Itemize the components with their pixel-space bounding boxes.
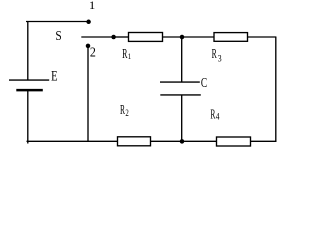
resistor R2 xyxy=(118,137,151,146)
wire R3 to right rail xyxy=(248,36,277,38)
node switch pole junction xyxy=(111,35,116,40)
wire left rail upper xyxy=(27,22,29,80)
wire from switch pole to R1 xyxy=(114,36,129,38)
svg-text:1: 1 xyxy=(89,0,96,12)
wire node A down to capacitor xyxy=(181,37,183,82)
wire right rail vertical xyxy=(275,37,277,142)
svg-text:R: R xyxy=(212,46,217,61)
resistor R4 xyxy=(217,137,251,146)
wire node B to R4 xyxy=(182,140,217,142)
svg-text:C: C xyxy=(201,76,207,91)
svg-text:2: 2 xyxy=(125,109,129,119)
wire R4 to right rail xyxy=(251,140,277,142)
wire node A to R3 xyxy=(182,36,214,38)
wire bottom rail left to R2 xyxy=(27,140,118,142)
svg-text:3: 3 xyxy=(218,54,222,64)
node A junction top xyxy=(180,35,185,40)
svg-text:1: 1 xyxy=(128,51,131,61)
wire R1 to node A xyxy=(163,36,183,38)
svg-text:2: 2 xyxy=(90,45,96,60)
switch S arm xyxy=(81,36,113,38)
wire capacitor down to bottom node xyxy=(181,95,183,141)
resistor R1 xyxy=(129,33,163,42)
battery E negative plate xyxy=(16,89,43,92)
wire from contact 2 down to bottom rail xyxy=(87,46,89,141)
svg-text:E: E xyxy=(51,69,58,85)
node switch contact 1 xyxy=(86,20,91,25)
resistor R3 xyxy=(214,33,248,42)
battery E positive plate xyxy=(9,79,49,81)
capacitor C bottom plate xyxy=(160,94,201,96)
capacitor C top plate xyxy=(160,81,200,83)
svg-text:S: S xyxy=(55,28,61,43)
node switch contact 2 xyxy=(86,44,91,49)
wire R2 to node B xyxy=(151,140,183,142)
node B junction bottom xyxy=(180,139,185,144)
svg-text:4: 4 xyxy=(216,113,220,123)
wire top from left rail to switch contact 1 xyxy=(26,21,88,23)
wire left rail lower xyxy=(27,90,29,143)
